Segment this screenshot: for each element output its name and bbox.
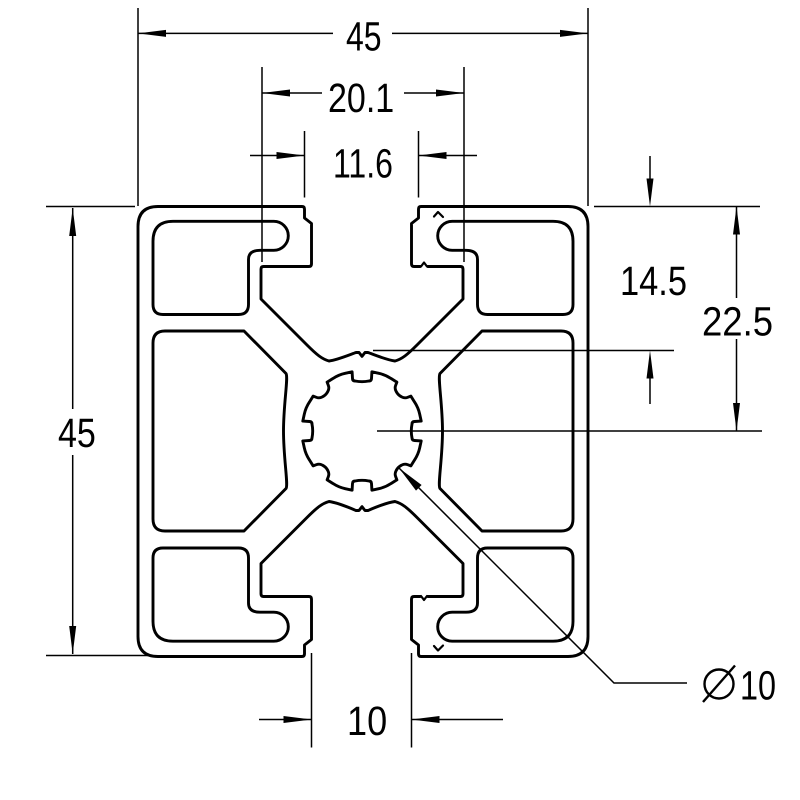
top face extension line to the right	[594, 206, 760, 208]
dim 45 top: extension lines	[138, 8, 588, 206]
arrowhead 45 top left	[138, 30, 166, 37]
diameter symbol of bore callout	[703, 666, 735, 703]
top-right corner cavity with T-lobe	[438, 221, 573, 314]
arrowhead 45 left bottom	[69, 626, 76, 654]
arrowhead 22.5 bottom (down)	[733, 403, 740, 431]
bottom-left corner cavity with T-lobe	[153, 548, 288, 641]
leader line for bore callout	[399, 468, 687, 683]
arrowhead 14.5 top (down)	[647, 179, 654, 207]
arrowhead 45 top right	[560, 30, 588, 37]
left side cavity	[153, 331, 287, 531]
right side cavity	[439, 331, 573, 531]
svg-text:11.6: 11.6	[333, 141, 393, 187]
arrowhead 11.6 left	[277, 152, 305, 159]
bottom-right corner cavity with T-lobe	[438, 548, 573, 641]
dim 45 top: dimension line	[138, 32, 588, 34]
svg-text:45: 45	[58, 410, 96, 456]
arrowhead 10 left (right-pointing)	[284, 716, 312, 723]
top-left corner cavity with T-lobe	[153, 221, 288, 314]
marker notch on top-right lip floor	[421, 263, 427, 267]
profile outer outline with top/bottom slot channels	[138, 207, 588, 657]
center bore: 8-tooth splined hole	[303, 372, 421, 490]
arrowhead 45 left top	[69, 208, 76, 236]
dim 45 left: dimension line	[72, 208, 74, 654]
arrowhead 20.1 left	[262, 90, 290, 97]
arrowhead bore leader (up-left pointing)	[399, 468, 422, 491]
dim 11.6: extension lines	[305, 131, 419, 198]
gap patch for top-right lip floor notch	[421, 265, 427, 269]
svg-text:10: 10	[347, 698, 387, 744]
gap patch for bottom-right lip ceiling notch	[421, 594, 427, 598]
svg-text:20.1: 20.1	[328, 75, 394, 121]
marker notch on bottom-right lip ceiling	[421, 596, 427, 600]
dim 14.5: arrow stems	[649, 156, 651, 404]
dim 22.5: leader from core center	[377, 430, 762, 432]
dim 20.1: extension lines	[262, 67, 464, 262]
arrowhead 22.5 top (up)	[733, 207, 740, 235]
dim 22.5: dimension line	[736, 207, 738, 432]
arrowhead 20.1 right	[436, 90, 464, 97]
dim 14.5: leader from core notch	[373, 350, 674, 352]
dim 10: extension lines	[312, 653, 412, 748]
arrowhead 11.6 right	[419, 152, 447, 159]
dim 20.1: dimension line	[262, 92, 464, 94]
dim 10: dimension lines (outside arrows)	[259, 719, 503, 721]
arrowhead 14.5 bottom (up)	[647, 351, 654, 379]
svg-text:45: 45	[346, 14, 382, 60]
marker notch on bottom-right lobe cap	[434, 646, 443, 651]
dim 11.6: dimension lines (outside arrows)	[250, 155, 477, 157]
arrowhead 10 right (left-pointing)	[412, 716, 440, 723]
marker notch on top-right lobe cap	[434, 212, 443, 217]
svg-text:10: 10	[740, 663, 776, 709]
dim 45 left: extension lines	[46, 207, 152, 656]
svg-text:22.5: 22.5	[702, 299, 773, 345]
svg-text:14.5: 14.5	[620, 258, 687, 304]
